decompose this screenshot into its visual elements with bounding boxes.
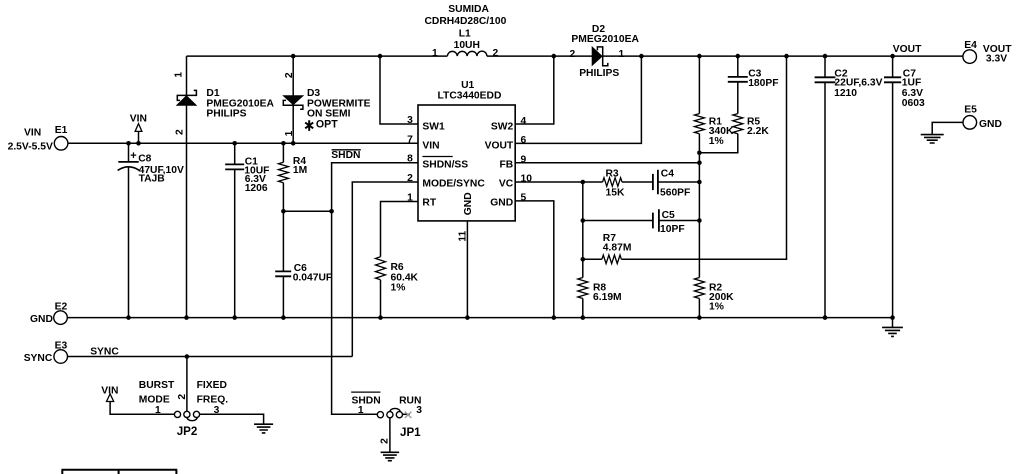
- svg-text:E5: E5: [964, 105, 977, 116]
- svg-text:E1: E1: [55, 125, 68, 136]
- svg-text:SHDN: SHDN: [331, 150, 360, 161]
- wire JP2 pin2 stem to SYNC: [186, 357, 188, 412]
- svg-text:1206: 1206: [245, 183, 268, 194]
- wire GND rail: [67, 317, 892, 319]
- wire E5 to ground: [932, 122, 963, 134]
- svg-text:E2: E2: [55, 302, 68, 313]
- jumper JP1 pin circles: [377, 412, 383, 418]
- wire U1 pin 4 SW2: [515, 56, 554, 124]
- svg-text:TAJB: TAJB: [139, 174, 165, 185]
- ground E5: [921, 135, 944, 143]
- resistor R4: [278, 162, 288, 182]
- node SW1 top rail: [378, 54, 383, 59]
- svg-text:PHILIPS: PHILIPS: [579, 68, 619, 79]
- asterisk OPT marker for D3: [305, 120, 313, 131]
- node JP2 SYNC rail: [185, 354, 190, 359]
- svg-text:VIN: VIN: [422, 141, 439, 152]
- svg-text:R6: R6: [391, 262, 404, 273]
- resistor R2: [694, 278, 704, 299]
- capacitor C1: [225, 164, 244, 169]
- resistor R6: [376, 257, 386, 280]
- resistor R7: [602, 255, 622, 264]
- svg-text:C8: C8: [138, 154, 151, 165]
- wire JP2 pin3 to ground: [200, 414, 264, 424]
- wire C2 top lead: [824, 56, 826, 77]
- wire D1 anode to GND rail: [186, 105, 188, 318]
- title block table fragment: [62, 470, 178, 474]
- svg-text:2.2K: 2.2K: [747, 126, 769, 137]
- svg-text:2: 2: [379, 438, 390, 444]
- svg-text:PMEG2010EA: PMEG2010EA: [571, 34, 639, 45]
- svg-text:FB: FB: [499, 160, 513, 171]
- svg-text:MODE: MODE: [139, 394, 170, 405]
- wire D3 cathode to VIN rail: [292, 105, 294, 143]
- wire U1 pin 5 GND: [515, 201, 554, 318]
- svg-text:JP2: JP2: [177, 425, 198, 438]
- svg-text:E3: E3: [55, 340, 68, 351]
- svg-text:SHDN: SHDN: [352, 396, 381, 407]
- svg-text:VOUT: VOUT: [893, 44, 922, 55]
- svg-text:3.3V: 3.3V: [986, 54, 1007, 65]
- svg-text:C5: C5: [662, 210, 675, 221]
- wire C4 to FB line: [658, 181, 700, 183]
- node R4 VIN rail: [281, 141, 286, 146]
- terminal E5: [963, 116, 977, 130]
- resistor R3: [603, 178, 622, 187]
- svg-text:2: 2: [493, 48, 499, 59]
- wire C5 left lead: [583, 220, 653, 222]
- wire C1 bottom lead: [234, 169, 236, 317]
- node C2 GND rail: [823, 315, 828, 320]
- node C1 VIN rail: [232, 141, 237, 146]
- node C3 top rail: [736, 54, 741, 59]
- diode D1: [177, 96, 196, 105]
- wire SYNC rail: [68, 356, 353, 358]
- svg-text:1: 1: [155, 405, 161, 416]
- node VC R7 branch: [581, 257, 586, 262]
- node C1 GND rail: [232, 315, 237, 320]
- node R8 GND rail: [581, 315, 586, 320]
- wire C5 right lead: [659, 220, 700, 222]
- overline SHDN at JP1: [351, 391, 380, 393]
- wire D1 cathode riser: [186, 56, 188, 95]
- wire JP2 pin1 lead: [110, 402, 174, 415]
- wire U1 pin 9 FB: [515, 162, 699, 164]
- node C8 GND rail: [126, 315, 131, 320]
- svg-text:SYNC: SYNC: [24, 353, 53, 364]
- svg-text:10PF: 10PF: [660, 224, 685, 235]
- wire R6 bottom lead: [380, 280, 382, 318]
- wire VIN rail E1 to U1 pin 7: [68, 142, 418, 144]
- svg-text:C4: C4: [661, 168, 674, 179]
- node R5 jog FB line: [697, 151, 702, 156]
- svg-text:VC: VC: [499, 179, 514, 190]
- node VIN arrow rail: [136, 141, 141, 146]
- node SHDN R4 junction: [329, 209, 334, 214]
- svg-text:CDRH4D28C/100: CDRH4D28C/100: [425, 16, 507, 27]
- svg-text:4: 4: [521, 116, 527, 127]
- svg-text:1%: 1%: [709, 136, 724, 147]
- svg-text:FREQ.: FREQ.: [197, 394, 229, 405]
- node SW2 top rail: [552, 54, 557, 59]
- svg-text:7: 7: [407, 134, 413, 145]
- svg-text:VOUT: VOUT: [485, 141, 514, 152]
- svg-text:9: 9: [521, 154, 527, 165]
- svg-text:1M: 1M: [293, 165, 307, 176]
- diode D2: [592, 47, 602, 65]
- node R7 riser top rail: [784, 54, 789, 59]
- node C6 GND rail: [281, 315, 286, 320]
- svg-text:4.87M: 4.87M: [603, 243, 632, 254]
- capacitor C7: [884, 77, 901, 82]
- svg-text:15K: 15K: [606, 187, 625, 198]
- svg-text:560PF: 560PF: [660, 188, 690, 199]
- svg-text:GND: GND: [490, 197, 513, 208]
- wire C6 top lead: [282, 211, 284, 271]
- svg-text:R3: R3: [606, 168, 619, 179]
- wire VC branch vertical: [582, 182, 584, 278]
- svg-text:5: 5: [521, 193, 527, 204]
- node pin11 GND rail: [465, 315, 470, 320]
- node R2 GND rail: [697, 315, 702, 320]
- terminal E1: [54, 137, 68, 151]
- svg-text:FIXED: FIXED: [197, 380, 227, 391]
- ground JP1: [381, 452, 400, 460]
- node D3 VIN rail: [291, 141, 296, 146]
- capacitor C2: [815, 77, 836, 82]
- node FB pin9: [697, 160, 702, 165]
- terminal E4: [963, 50, 977, 64]
- wire C3 top lead: [737, 56, 739, 77]
- svg-text:3: 3: [416, 405, 422, 416]
- wire SHDN net (U1 pin 8 to JP1 pin 1): [332, 163, 418, 415]
- wire top rail mid segment: [487, 55, 592, 57]
- capacitor C5: [653, 209, 659, 231]
- resistor R5: [733, 114, 743, 134]
- svg-text:2: 2: [570, 49, 576, 60]
- inductor L1: [447, 51, 487, 56]
- svg-text:2: 2: [177, 394, 188, 400]
- node R1 top rail: [697, 54, 702, 59]
- resistor R8: [578, 278, 588, 299]
- svg-text:VIN: VIN: [24, 128, 41, 139]
- capacitor C8 (polarized): [118, 161, 138, 163]
- svg-text:6.19M: 6.19M: [593, 292, 622, 303]
- svg-text:PHILIPS: PHILIPS: [206, 108, 246, 119]
- jumper JP1 shunt arc pins 2-3: [390, 408, 400, 412]
- svg-text:2: 2: [175, 129, 186, 135]
- svg-text:MODE/SYNC: MODE/SYNC: [422, 179, 485, 190]
- capacitor C4: [653, 170, 658, 195]
- wire U1 pin 6 VOUT: [515, 56, 641, 143]
- wire C2 bottom lead: [824, 82, 826, 317]
- wire R4 bottom lead: [282, 183, 284, 212]
- wire C7 top lead: [892, 56, 894, 77]
- wire D3 pin2 riser: [292, 56, 294, 96]
- svg-text:2: 2: [284, 72, 295, 78]
- node C8 VIN rail: [126, 141, 131, 146]
- node C5 FB line: [697, 218, 702, 223]
- overline SHDN net label: [332, 149, 361, 151]
- svg-text:10: 10: [521, 174, 533, 185]
- ground JP2: [254, 424, 273, 433]
- svg-text:JP1: JP1: [400, 426, 421, 439]
- svg-text:GND: GND: [30, 314, 53, 325]
- svg-text:1: 1: [173, 72, 184, 78]
- svg-text:2.5V-5.5V: 2.5V-5.5V: [8, 141, 53, 152]
- jumper JP2 pin circles: [174, 411, 180, 417]
- wire U1 pin 3 SW1: [380, 56, 418, 124]
- svg-text:0603: 0603: [902, 98, 925, 109]
- node C2 top rail: [823, 54, 828, 59]
- svg-text:1210: 1210: [834, 88, 857, 99]
- VIN power arrow symbol: [135, 124, 142, 132]
- wire R8 bottom lead: [582, 299, 584, 318]
- wire R1 bottom / FB vertical: [698, 134, 700, 278]
- wire C7 bottom lead: [892, 82, 894, 317]
- capacitor C6: [275, 271, 291, 276]
- wire C1 top lead: [234, 143, 236, 164]
- wire C8 top lead: [128, 143, 130, 162]
- svg-text:1: 1: [619, 49, 625, 60]
- wire U1 pin 11 GND: [466, 221, 468, 318]
- svg-text:OPT: OPT: [316, 118, 338, 130]
- svg-text:RT: RT: [422, 197, 436, 208]
- node D1 GND rail: [184, 315, 189, 320]
- no-connect X at JP1 pin 3: [405, 412, 412, 418]
- svg-text:10UH: 10UH: [454, 40, 480, 51]
- svg-text:2: 2: [407, 173, 413, 184]
- svg-text:1%: 1%: [391, 283, 406, 294]
- resistor R1: [694, 114, 704, 134]
- svg-text:SHDN/SS: SHDN/SS: [422, 160, 468, 171]
- svg-text:SW2: SW2: [491, 121, 514, 132]
- wire ground stem: [892, 318, 894, 328]
- svg-text:VIN: VIN: [130, 114, 147, 125]
- svg-text:VIN: VIN: [101, 386, 118, 397]
- svg-text:L1: L1: [459, 28, 471, 39]
- svg-text:6: 6: [521, 135, 527, 146]
- jumper JP2 shunt arc pins 2-3: [187, 417, 198, 421]
- svg-text:BURST: BURST: [139, 380, 175, 391]
- svg-text:1: 1: [432, 48, 438, 59]
- wire top rail right segment: [603, 55, 963, 57]
- wire C8 bottom lead: [128, 167, 130, 318]
- wire R3 to C4: [622, 181, 653, 183]
- node C4 FB line: [697, 180, 702, 185]
- svg-text:SUMIDA: SUMIDA: [448, 4, 489, 15]
- wire JP1 pin3 stub: [403, 413, 410, 415]
- svg-text:1%: 1%: [709, 301, 724, 312]
- wire R7 left lead: [583, 258, 602, 260]
- wire top rail left segment: [187, 55, 448, 57]
- node R4 bottom: [281, 209, 286, 214]
- terminal E2: [54, 311, 68, 325]
- svg-text:1: 1: [358, 405, 364, 416]
- wire R7 to VOUT riser: [621, 56, 786, 259]
- svg-text:GND: GND: [979, 119, 1002, 130]
- node D3 top rail: [291, 54, 296, 59]
- svg-text:+: +: [130, 150, 136, 162]
- terminal E3: [54, 350, 68, 364]
- node VOUT riser top rail: [639, 54, 644, 59]
- node VC R3 branch: [581, 180, 586, 185]
- node C7 top rail: [890, 54, 895, 59]
- node pin5 GND rail: [552, 315, 557, 320]
- wire C6 bottom lead: [282, 276, 284, 317]
- wire C3 to R5: [737, 82, 739, 114]
- wire RT to R6: [381, 202, 419, 257]
- overline U1 SHDN: [422, 156, 452, 158]
- wire R5 bottom jog to FB line: [699, 134, 737, 153]
- node VC C5 branch: [581, 218, 586, 223]
- svg-text:180PF: 180PF: [748, 78, 778, 89]
- VIN power arrow at JP2: [107, 394, 114, 402]
- wire MODE/SYNC net (U1 pin 2 to SYNC line): [352, 182, 418, 357]
- svg-text:0.047UF: 0.047UF: [293, 273, 333, 284]
- wire R4 top lead: [282, 143, 284, 162]
- wire R4 bottom to SHDN net: [283, 210, 331, 212]
- wire R1 top lead: [698, 56, 700, 114]
- svg-text:SW1: SW1: [422, 121, 445, 132]
- svg-text:GND: GND: [463, 192, 474, 215]
- ground main rail: [882, 327, 903, 336]
- wire U1 pin 10 VC: [515, 181, 602, 183]
- svg-text:LTC3440EDD: LTC3440EDD: [438, 90, 502, 101]
- wire R2 bottom lead: [698, 299, 700, 318]
- svg-text:E4: E4: [964, 40, 977, 51]
- svg-text:1: 1: [407, 193, 413, 204]
- node R6 GND rail: [378, 315, 383, 320]
- svg-text:8: 8: [407, 154, 413, 165]
- diode D3: [284, 96, 303, 105]
- wire JP1 pin2 stem: [389, 418, 391, 453]
- node ground stem GND rail: [890, 315, 895, 320]
- capacitor C3: [728, 77, 748, 82]
- op-amp U1 LTC3440EDD body: [418, 105, 515, 221]
